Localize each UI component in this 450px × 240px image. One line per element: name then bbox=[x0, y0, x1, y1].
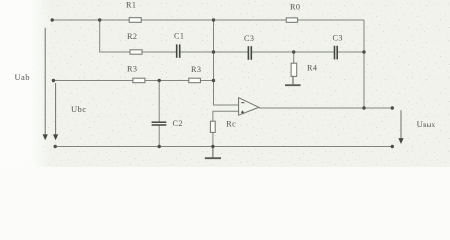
node bottom rail C2 junction bbox=[158, 145, 161, 148]
wire C2 branch lower bbox=[158, 125, 160, 146]
arrow Ubc voltage bbox=[53, 83, 58, 140]
wire long vertical x=213.5 with turn to op-amp inverting input bbox=[214, 20, 239, 105]
node rail2 R4 junction bbox=[292, 50, 295, 53]
node a top-left terminal bbox=[51, 18, 54, 21]
capacitor C3 right bbox=[335, 46, 338, 60]
svg-text:C3: C3 bbox=[244, 34, 254, 43]
node rail3 long vertical junction bbox=[212, 79, 215, 82]
node top rail drop junction bbox=[98, 18, 101, 21]
wire bottom rail c-node bbox=[55, 146, 392, 148]
resistor R3 left bbox=[133, 78, 145, 83]
wire top rail a-node to right corner bbox=[52, 19, 364, 21]
ground below Rc bbox=[205, 147, 221, 159]
wire rail2 left segment through R2 to C1 left plate bbox=[100, 51, 176, 53]
svg-text:C2: C2 bbox=[173, 119, 183, 128]
svg-text:R2: R2 bbox=[127, 32, 137, 41]
svg-text:C3: C3 bbox=[333, 34, 343, 43]
svg-text:Uab: Uab bbox=[15, 72, 30, 82]
resistor Rc vertical bbox=[210, 121, 215, 132]
node bottom rail right terminal bbox=[391, 145, 394, 148]
wire rail2 C1 right plate to C3a left plate bbox=[180, 51, 248, 53]
svg-text:C1: C1 bbox=[174, 32, 184, 41]
wire right vertical from top rail corner down to output node bbox=[363, 20, 365, 108]
node rail2 long vertical junction bbox=[212, 50, 215, 53]
capacitor C1 bbox=[177, 44, 180, 57]
node output feedback junction bbox=[362, 106, 365, 109]
node b rail3 left bbox=[52, 79, 55, 82]
node rail3 C2 junction bbox=[158, 79, 161, 82]
ground below R4 bbox=[285, 76, 301, 85]
svg-text:Uвых: Uвых bbox=[417, 119, 436, 129]
svg-text:Rc: Rc bbox=[226, 119, 236, 128]
node top rail long vertical junction bbox=[212, 18, 215, 21]
resistor R0 bbox=[286, 18, 297, 22]
wire rail2 C3b right plate to right corner bbox=[338, 51, 365, 53]
resistor R3 right bbox=[189, 78, 201, 83]
resistor R1 bbox=[129, 18, 141, 23]
svg-text:R4: R4 bbox=[307, 64, 317, 73]
resistor R4 vertical bbox=[291, 63, 297, 76]
svg-text:R0: R0 bbox=[290, 2, 300, 11]
svg-text:R3: R3 bbox=[191, 65, 201, 74]
wire Rc bottom to ground rail bbox=[212, 132, 214, 146]
resistor R2 bbox=[130, 50, 142, 54]
node rail2 right corner junction bbox=[362, 50, 365, 53]
capacitor C2 horizontal plates bbox=[152, 122, 167, 125]
wire R4 branch from rail2 bbox=[293, 52, 295, 63]
arrow Uab voltage bbox=[43, 28, 48, 141]
node c bottom rail left bbox=[54, 145, 57, 148]
arrow Uvyh output voltage bbox=[398, 110, 403, 144]
wire op-amp non-inverting input L from Rc branch bbox=[213, 111, 239, 121]
wire left drop from top rail to rail2 bbox=[99, 20, 101, 52]
svg-text:R3: R3 bbox=[127, 64, 137, 73]
wire rail3 from node b through R3 R3 to long vertical bbox=[53, 80, 213, 82]
wire op-amp output to terminal bbox=[259, 107, 393, 109]
wire rail2 C3a right plate to C3b left plate bbox=[252, 51, 335, 53]
svg-text:R1: R1 bbox=[126, 1, 136, 10]
wire C2 branch upper bbox=[158, 81, 160, 122]
capacitor C3 left bbox=[248, 46, 251, 60]
node bottom rail ground junction bbox=[211, 145, 214, 148]
svg-text:Ubc: Ubc bbox=[71, 104, 86, 114]
op-amp U1 bbox=[239, 98, 259, 116]
node output terminal bbox=[391, 106, 394, 109]
